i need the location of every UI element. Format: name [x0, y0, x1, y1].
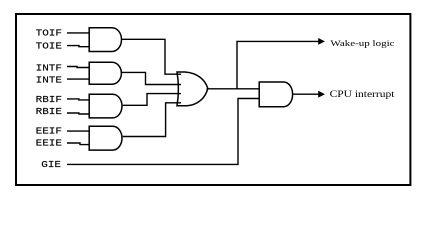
label TOIE	[36, 42, 62, 52]
wire INTF input	[67, 67, 89, 68]
wire EEIE input	[67, 143, 89, 145]
svg-text:TOIF: TOIF	[36, 29, 62, 39]
svg-text:INTF: INTF	[36, 64, 62, 74]
wire A1 output to OR	[122, 39, 182, 74]
label INTE	[36, 76, 62, 86]
wire A2 output to OR	[121, 72, 181, 84]
svg-text:RBIF: RBIF	[36, 96, 62, 106]
svg-text:Wake-up logic: Wake-up logic	[330, 39, 395, 49]
wire A4 output to OR	[123, 103, 181, 137]
label Wake-up logic	[330, 39, 395, 49]
arrowhead CPU interrupt	[318, 91, 325, 98]
label RBIF	[36, 96, 62, 106]
wire A3 output to OR	[123, 94, 181, 106]
AND gate A3 (RBIF/RBIE)	[89, 94, 122, 118]
wire TOIE input	[67, 46, 89, 47]
wire RBIE input	[67, 113, 89, 114]
svg-text:GIE: GIE	[41, 161, 61, 171]
svg-text:EEIF: EEIF	[36, 127, 62, 137]
wire GIE input	[67, 99, 259, 165]
wire TOIF input	[67, 32, 89, 34]
wire RBIF input	[67, 99, 89, 100]
AND gate A5 (GIE gating)	[259, 82, 292, 107]
wire EEIF input	[67, 130, 89, 132]
label TOIF	[36, 29, 62, 39]
wire wake-up branch	[237, 41, 319, 88]
wire OR output to AND A5	[207, 88, 260, 90]
wire CPU interrupt output	[293, 93, 319, 95]
AND gate A2 (INTF/INTE)	[89, 62, 121, 84]
AND gate A4 (EEIF/EEIE)	[89, 126, 122, 150]
arrowhead wake-up	[318, 38, 325, 45]
OR gate O1	[177, 72, 208, 106]
wire INTE input	[67, 78, 89, 80]
label INTF	[36, 64, 62, 74]
label RBIE	[36, 108, 62, 118]
svg-text:TOIE: TOIE	[36, 42, 62, 52]
label GIE	[41, 161, 61, 171]
label EEIF	[36, 127, 62, 137]
AND gate A1 (TOIF/TOIE)	[89, 28, 121, 52]
label CPU interrupt	[330, 90, 395, 100]
svg-text:INTE: INTE	[36, 76, 62, 86]
svg-text:EEIE: EEIE	[36, 139, 62, 149]
border frame	[16, 14, 410, 185]
label EEIE	[36, 139, 62, 149]
svg-text:RBIE: RBIE	[36, 108, 62, 118]
svg-text:CPU interrupt: CPU interrupt	[330, 90, 395, 100]
